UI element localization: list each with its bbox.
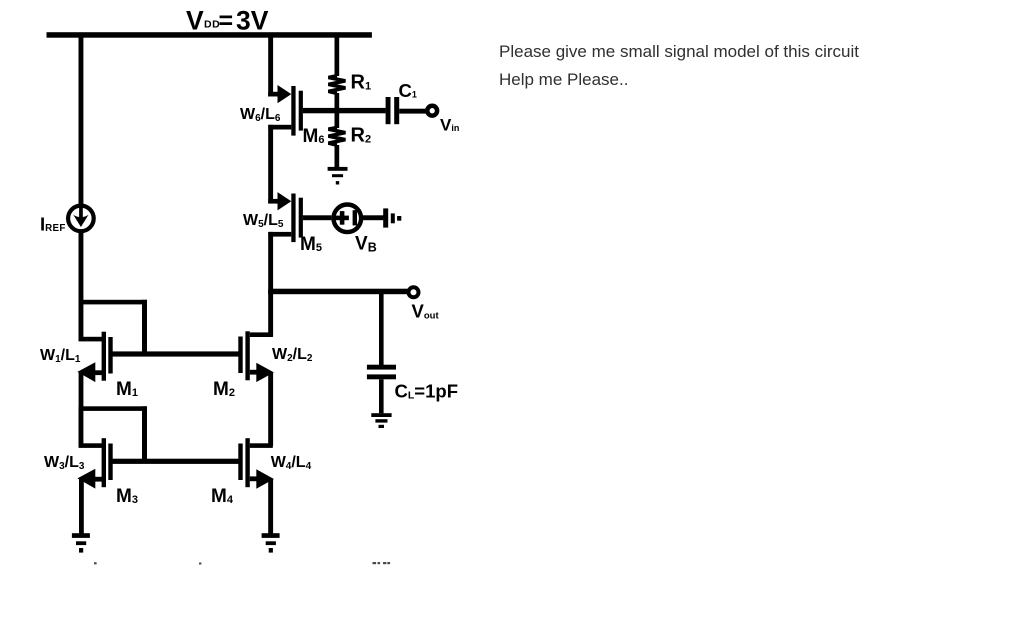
VDD rail: [47, 32, 372, 38]
wire CL to ground: [379, 379, 384, 413]
wire M1 diode connection: [79, 300, 147, 357]
wire IREF branch top: [79, 35, 84, 205]
wire M3 drain: [79, 410, 104, 448]
svg-text:CL=1pF: CL=1pF: [395, 381, 459, 402]
wire M5 gate to VB: [303, 215, 332, 220]
terminal Vout: [409, 287, 419, 297]
svg-text:M3: M3: [116, 486, 138, 507]
wire M3 diode connection: [79, 406, 147, 463]
svg-text:IREF: IREF: [40, 214, 66, 235]
svg-text:3V: 3V: [236, 6, 269, 36]
wire VDD to M6 source: [268, 35, 273, 97]
transistor M1: [77, 332, 112, 382]
wire gate line M1-M2: [110, 351, 240, 356]
wire CL branch: [379, 291, 384, 365]
svg-text:W3/L3: W3/L3: [44, 454, 85, 472]
ground CL: [371, 413, 391, 428]
wire output node horizontal: [268, 289, 408, 295]
wire IREF branch bottom: [79, 231, 84, 304]
svg-text:W1/L1: W1/L1: [40, 347, 81, 365]
battery terminal: [383, 208, 401, 227]
capacitor C1: [386, 97, 400, 124]
svg-text:W6/L6: W6/L6: [240, 106, 281, 124]
capacitor CL: [367, 365, 396, 380]
svg-text:Vin: Vin: [440, 115, 459, 134]
transistor M5: [268, 192, 303, 242]
ground R2: [328, 167, 348, 185]
label VDD=3V: [186, 6, 269, 36]
wire M6 gate line to C1: [303, 108, 386, 113]
wire M1 drain: [79, 304, 104, 341]
transistor M4: [238, 438, 274, 489]
resistor R2: [328, 128, 345, 146]
terminal Vin: [427, 106, 437, 116]
voltage source VB: [334, 205, 362, 233]
svg-text:VB: VB: [355, 234, 377, 255]
wire M2 source down: [268, 372, 273, 446]
wire VB to battery: [361, 215, 384, 220]
resistor R1: [328, 76, 345, 94]
svg-text:W2/L2: W2/L2: [272, 346, 313, 364]
svg-text:R2: R2: [351, 125, 372, 147]
wire VDD to R1: [335, 35, 340, 76]
svg-text:Vout: Vout: [412, 301, 440, 322]
svg-text:V: V: [186, 6, 204, 36]
wire R2 to ground: [335, 145, 340, 167]
current source IREF: [68, 202, 94, 231]
svg-text:M4: M4: [211, 486, 234, 507]
svg-text:=: =: [219, 7, 234, 35]
wire M2 drain up: [268, 291, 273, 337]
svg-text:M6: M6: [303, 126, 325, 147]
wire M4 source down: [268, 479, 273, 536]
svg-text:C1: C1: [399, 80, 417, 101]
transistor M2: [238, 331, 274, 382]
wire node to R2: [335, 110, 340, 128]
ground M3: [72, 533, 90, 552]
transistor M6: [268, 85, 303, 136]
svg-text:W5/L5: W5/L5: [243, 212, 284, 230]
wire M1 source down: [79, 372, 84, 410]
wire R1 to node: [335, 93, 340, 113]
wire gate line M3-M4: [110, 459, 240, 464]
wire M3 source down: [79, 479, 84, 535]
svg-text:R1: R1: [351, 72, 372, 94]
svg-text:M5: M5: [300, 234, 322, 255]
svg-text:M2: M2: [213, 379, 235, 400]
svg-text:W4/L4: W4/L4: [271, 454, 312, 472]
wire M6 drain to M5 source: [268, 125, 273, 204]
bottom crop artifacts: [94, 562, 390, 565]
wire C1 to Vin: [399, 109, 427, 114]
ground M4: [262, 533, 280, 552]
svg-text:M1: M1: [116, 379, 138, 400]
wire M5 drain down to output node: [268, 232, 273, 294]
transistor M3: [77, 438, 112, 488]
